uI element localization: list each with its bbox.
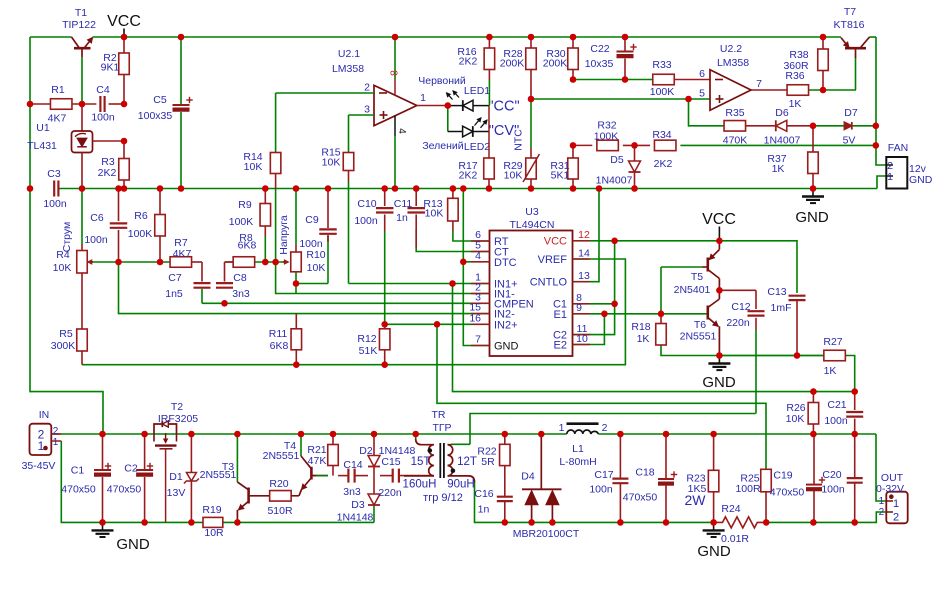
capacitor C18 — [658, 434, 677, 522]
resistor R25 — [761, 469, 772, 522]
junction (541.3,434) — [538, 431, 545, 438]
junction (504.8,522.4) — [502, 519, 509, 526]
svg-text:C22: C22 — [590, 43, 609, 55]
label C9 — [299, 214, 323, 250]
junction (875.8,125.8) — [873, 123, 880, 130]
resistor R21 — [328, 434, 339, 476]
label C21 — [824, 399, 848, 427]
label C15 — [378, 456, 402, 499]
svg-text:1K: 1K — [637, 333, 650, 345]
capacitor C12 — [748, 311, 765, 315]
wire C12 top from T5-T6 node — [719, 290, 756, 309]
svg-text:10x35: 10x35 — [585, 58, 614, 70]
label T6 — [680, 319, 717, 343]
svg-text:7: 7 — [475, 334, 481, 346]
svg-text:10: 10 — [576, 333, 588, 345]
label D3 — [337, 499, 374, 524]
label TR — [403, 409, 477, 504]
wire CMPEN compensation row — [202, 289, 490, 304]
label R33 — [650, 59, 675, 98]
svg-text:D7: D7 — [844, 107, 858, 119]
junction (813.4,522.4) — [810, 519, 817, 526]
svg-text:2K2: 2K2 — [459, 170, 478, 182]
svg-text:2K2: 2K2 — [654, 158, 673, 170]
svg-text:T6: T6 — [694, 319, 706, 331]
svg-text:DTC: DTC — [494, 257, 517, 269]
label R11 — [269, 328, 289, 352]
svg-text:10K: 10K — [425, 208, 444, 220]
junction (384.7,364.7) — [381, 361, 388, 368]
wire IN2- row from C6 — [119, 262, 490, 314]
svg-text:U3: U3 — [525, 206, 539, 218]
junction (813.4,391.6) — [810, 388, 817, 395]
svg-text:Зелений: Зелений — [422, 140, 463, 152]
svg-text:GND: GND — [116, 536, 150, 553]
label T1 — [62, 7, 96, 31]
junction (437,324.3) — [434, 321, 441, 328]
junction (634.5,145.4) — [631, 142, 638, 149]
svg-text:1: 1 — [420, 92, 426, 104]
power flag VCC — [107, 13, 141, 37]
svg-text:R11: R11 — [269, 328, 288, 340]
svg-text:C6: C6 — [90, 212, 104, 224]
svg-text:100n: 100n — [589, 484, 613, 496]
svg-text:2N5551: 2N5551 — [263, 450, 300, 462]
junction (118.5,262) — [115, 259, 122, 266]
wire R32-R34 row — [573, 144, 876, 146]
wire pin5 node down to R35 row — [689, 99, 725, 126]
svg-text:10K: 10K — [504, 170, 523, 182]
label C1 — [61, 465, 96, 496]
label R1 — [48, 84, 67, 125]
svg-text:U1: U1 — [36, 122, 50, 134]
junction (713.6,522.4) — [710, 519, 717, 526]
capacitor C21 — [846, 392, 863, 434]
svg-text:NTC: NTC — [513, 129, 525, 151]
svg-text:C12: C12 — [731, 301, 750, 313]
label R30 — [543, 48, 568, 70]
LED LED2 — [448, 106, 489, 137]
capacitor C5 — [173, 37, 193, 189]
svg-text:C17: C17 — [594, 469, 613, 481]
capacitor C14 — [348, 469, 354, 483]
power flag VCC at T5 — [702, 211, 736, 241]
svg-text:C2: C2 — [124, 463, 138, 475]
svg-text:C20: C20 — [822, 469, 841, 481]
svg-text:R9: R9 — [238, 199, 252, 211]
junction (634.5,188.5) — [631, 185, 638, 192]
svg-text:100K: 100K — [594, 131, 619, 143]
svg-text:2N5551: 2N5551 — [680, 331, 717, 343]
U3 left pin stubs — [471, 241, 490, 346]
wire R10 bottom to IN1- row — [295, 272, 297, 294]
label R26 — [786, 402, 806, 425]
resistor R32 — [597, 140, 619, 151]
junction (614.6,303.8) — [611, 301, 618, 308]
capacitor C4 — [100, 96, 104, 112]
svg-text:D1: D1 — [169, 471, 183, 483]
svg-text:D6: D6 — [775, 107, 789, 119]
svg-text:8: 8 — [388, 70, 399, 76]
resistor R31 — [568, 145, 579, 188]
wire DTC-GND chain vertical — [463, 189, 489, 346]
svg-text:U2.2: U2.2 — [720, 43, 742, 55]
svg-text:1mF: 1mF — [771, 302, 792, 314]
junction (489.4,37) — [486, 34, 493, 41]
junction (573,79.5) — [570, 76, 577, 83]
label C14 — [343, 459, 363, 498]
junction (614.6,240.8) — [611, 238, 618, 245]
transistor T3 — [237, 434, 270, 522]
label C7 — [165, 272, 183, 300]
wire output V+ to OUT pin1 — [876, 434, 886, 501]
label C13 — [767, 286, 791, 314]
svg-text:R20: R20 — [269, 478, 288, 490]
wire transformer secondary top — [451, 443, 470, 445]
svg-text:LM358: LM358 — [717, 57, 749, 69]
svg-text:C15: C15 — [381, 456, 400, 468]
svg-text:D3: D3 — [351, 499, 365, 511]
junction (328,188.5) — [325, 185, 332, 192]
connector FAN — [886, 157, 907, 189]
resistor R20 — [270, 491, 292, 502]
label R3 — [98, 156, 117, 179]
svg-text:2: 2 — [602, 422, 608, 434]
wire R1-C4 node row — [30, 103, 124, 105]
svg-text:L-80mH: L-80mH — [559, 456, 596, 468]
resistor R34 — [654, 140, 676, 151]
svg-text:360R: 360R — [783, 60, 809, 72]
svg-text:IN2+: IN2+ — [494, 319, 518, 331]
label U1 — [27, 122, 57, 152]
capacitor C20 — [847, 434, 863, 522]
junction (124,141) — [121, 138, 128, 145]
label T2 — [158, 401, 198, 425]
wire wiper row left (Strum) — [89, 261, 170, 263]
label CV — [489, 123, 519, 139]
resistor R3 — [119, 141, 130, 189]
svg-text:100n: 100n — [43, 198, 67, 210]
svg-text:100K: 100K — [650, 86, 675, 98]
junction (620.4,434) — [617, 431, 624, 438]
label LED2 — [422, 140, 490, 153]
svg-text:тгр 9/12: тгр 9/12 — [423, 492, 463, 504]
resistor R7 — [170, 257, 192, 268]
junction (489,188.5) — [486, 185, 493, 192]
label NTC vertical — [513, 129, 525, 151]
svg-text:R4: R4 — [56, 249, 70, 261]
wire bottom power bus — [51, 433, 876, 435]
wire VREF divider row — [82, 259, 625, 365]
svg-text:470x50: 470x50 — [61, 484, 96, 496]
svg-text:100n: 100n — [354, 215, 378, 227]
junction (30,104) — [27, 101, 34, 108]
svg-text:13V: 13V — [167, 487, 186, 499]
svg-text:3n3: 3n3 — [343, 486, 361, 498]
junction (395,188.5) — [392, 185, 399, 192]
svg-text:6: 6 — [699, 68, 705, 80]
svg-text:R34: R34 — [652, 129, 671, 141]
label C17 — [589, 469, 613, 496]
label D4 — [513, 471, 580, 541]
resistor R14 — [270, 93, 281, 262]
svg-text:C3: C3 — [47, 168, 61, 180]
wire wiper row right — [225, 261, 287, 263]
wire T7 emitter to FAN pin2 — [876, 37, 886, 165]
resistor R1 — [50, 99, 71, 110]
svg-text:C5: C5 — [153, 94, 167, 106]
svg-text:5V: 5V — [843, 135, 856, 147]
capacitor C16 — [497, 497, 513, 523]
label T7 — [834, 6, 865, 31]
junction (181,188.5) — [178, 185, 185, 192]
resistor R37 — [808, 126, 819, 189]
svg-text:2W: 2W — [685, 492, 707, 508]
junction (265.3,188.5) — [262, 185, 269, 192]
capacitor C7 — [194, 283, 211, 288]
label R38 — [783, 49, 809, 72]
resistor R30 — [568, 37, 579, 80]
svg-text:4K7: 4K7 — [48, 113, 67, 125]
label C11 — [394, 198, 413, 224]
label R23 — [685, 473, 707, 509]
junction (823,37) — [820, 34, 827, 41]
label R9 — [229, 199, 254, 228]
label R27 — [823, 336, 842, 377]
resistor R9 — [260, 189, 271, 263]
svg-text:9: 9 — [576, 302, 582, 314]
svg-text:T5: T5 — [691, 271, 703, 283]
label LED1 — [418, 75, 490, 97]
label C12 — [726, 301, 750, 329]
diode D2 — [368, 434, 380, 476]
IC U1 TL431 — [72, 104, 125, 189]
svg-text:C19: C19 — [773, 470, 792, 482]
label R31 — [550, 160, 569, 182]
label U2.2 — [699, 43, 762, 100]
svg-text:3: 3 — [364, 104, 370, 116]
svg-text:VCC: VCC — [107, 13, 141, 30]
label R19 — [202, 504, 224, 539]
svg-text:R24: R24 — [721, 503, 740, 515]
label R4 — [53, 249, 72, 274]
svg-text:R33: R33 — [652, 59, 671, 71]
U3 right pin stubs — [573, 241, 591, 345]
label C2 — [107, 463, 142, 496]
capacitor C9 — [319, 189, 337, 243]
label R34 — [652, 129, 672, 170]
svg-text:1: 1 — [38, 439, 45, 453]
label R2 — [101, 52, 120, 74]
junction (160,262) — [157, 259, 164, 266]
svg-text:1: 1 — [559, 422, 565, 434]
svg-text:220n: 220n — [378, 487, 402, 499]
junction (620.4,522.4) — [617, 519, 624, 526]
svg-text:90uH: 90uH — [447, 479, 475, 491]
svg-text:C4: C4 — [96, 84, 110, 96]
junction (275.6,262) — [272, 259, 279, 266]
shunt resistor R24 — [714, 517, 767, 528]
wire C8 to R8 — [225, 262, 234, 282]
label C6 — [84, 212, 108, 246]
capacitor C8 — [216, 283, 233, 288]
wire GND bus — [59, 188, 877, 190]
junction (416.2,188.5) — [413, 185, 420, 192]
wire IN2+ node down to R25 row — [437, 324, 766, 469]
svg-text:E1: E1 — [554, 309, 567, 321]
wire top VCC rail — [30, 36, 876, 38]
svg-text:R6: R6 — [134, 210, 148, 222]
label R12 — [357, 333, 377, 357]
svg-text:220n: 220n — [726, 317, 750, 329]
junction (124,188.5) — [121, 185, 128, 192]
svg-text:35-45V: 35-45V — [22, 460, 56, 472]
transistor T1 — [72, 37, 93, 104]
junction (102.5,434) — [99, 431, 106, 438]
op-amp U2.1 — [276, 37, 448, 189]
svg-text:100K: 100K — [229, 216, 254, 228]
wire GND bus to FAN pin1 — [877, 176, 886, 189]
svg-text:1: 1 — [893, 498, 899, 510]
junction (854.7,434) — [851, 431, 858, 438]
junction (118.5,188.5) — [115, 185, 122, 192]
svg-text:C9: C9 — [305, 214, 319, 226]
label R5 — [51, 328, 76, 352]
junction (573,188.5) — [570, 185, 577, 192]
svg-text:470x50: 470x50 — [107, 484, 142, 496]
junction (237.4,522.4) — [234, 519, 241, 526]
junction (823,90) — [820, 87, 827, 94]
label R6 — [128, 210, 153, 240]
label R25 — [735, 473, 761, 496]
svg-text:TL494CN: TL494CN — [510, 219, 555, 231]
svg-text:1n: 1n — [396, 212, 408, 224]
wire C1-C2 collectors to VCC — [573, 241, 615, 335]
svg-text:LED2: LED2 — [464, 141, 490, 153]
svg-text:2: 2 — [879, 507, 885, 518]
wire left ground rail bottom — [61, 441, 374, 522]
capacitor C22 — [617, 37, 637, 80]
resistor R35 — [724, 121, 746, 132]
junction (463.3,261.8) — [460, 259, 467, 266]
transformer TR secondary — [448, 445, 475, 482]
junction (296,283.5) — [293, 280, 300, 287]
svg-text:10K: 10K — [53, 262, 72, 274]
wire C9 bottom corner — [327, 236, 329, 284]
svg-text:LM358: LM358 — [332, 63, 364, 75]
junction (384.7,188.5) — [381, 185, 388, 192]
svg-text:D4: D4 — [521, 471, 535, 483]
dual diode D4 MBR20100CT — [522, 434, 562, 522]
label D6 — [764, 107, 801, 147]
svg-text:2: 2 — [53, 426, 59, 437]
junction (713.6,434) — [710, 431, 717, 438]
label R24 — [721, 503, 749, 545]
svg-text:510R: 510R — [267, 505, 293, 517]
U3 pin numbers left — [469, 229, 481, 346]
label C4 — [91, 84, 115, 124]
svg-text:7: 7 — [756, 78, 762, 90]
resistor R13 — [448, 189, 459, 232]
svg-text:IN: IN — [39, 409, 50, 421]
svg-text:10R: 10R — [204, 527, 224, 539]
junction (224.5,303.3) — [221, 300, 228, 307]
wire R7 to C7 — [192, 262, 202, 282]
junction (719.4,240.8) — [716, 238, 723, 245]
junction (813,188.5) — [810, 185, 817, 192]
resistor R2 — [119, 37, 130, 104]
svg-text:C14: C14 — [343, 459, 362, 471]
label R21 — [307, 444, 326, 467]
label R32 — [594, 120, 619, 143]
label C10 — [354, 198, 378, 227]
capacitor C1 — [94, 434, 111, 522]
svg-text:ТГР: ТГР — [432, 422, 451, 434]
svg-text:T7: T7 — [844, 6, 856, 18]
junction (447.8,105.6) — [445, 102, 452, 109]
svg-text:GND: GND — [702, 374, 736, 391]
svg-text:1n5: 1n5 — [165, 288, 183, 300]
wire output bottom rail — [475, 482, 887, 522]
svg-text:C11: C11 — [394, 198, 413, 210]
label R14 — [243, 151, 262, 173]
wire T4-C14-C15 node row — [311, 475, 434, 477]
svg-text:1n: 1n — [478, 504, 490, 516]
svg-text:TR: TR — [432, 409, 446, 421]
svg-text:GND: GND — [795, 209, 829, 226]
resistor R38 — [818, 37, 829, 90]
svg-text:47K: 47K — [308, 455, 327, 467]
svg-text:FAN: FAN — [888, 142, 908, 154]
junction (265.3,262) — [262, 259, 269, 266]
svg-text:C8: C8 — [233, 272, 247, 284]
wire RT to R13 — [453, 231, 490, 241]
resistor R12 — [379, 324, 390, 364]
resistor R22 — [500, 434, 511, 496]
svg-text:100n: 100n — [91, 112, 115, 124]
label R16 — [457, 46, 477, 68]
svg-text:MBR20100CT: MBR20100CT — [513, 528, 580, 540]
svg-text:C1: C1 — [71, 465, 85, 477]
wire VCC pin12 row — [573, 241, 798, 293]
junction (384.7,324.3) — [381, 321, 388, 328]
svg-text:C21: C21 — [827, 399, 846, 411]
label R17 — [458, 160, 477, 182]
junction (144.6,434) — [141, 431, 148, 438]
svg-text:C10: C10 — [357, 198, 376, 210]
label R35 — [723, 107, 748, 147]
label C5 — [138, 94, 173, 122]
ground symbol under T6 — [702, 356, 736, 392]
svg-text:R27: R27 — [823, 336, 842, 348]
svg-text:Струм: Струм — [61, 222, 73, 252]
op-amp U2.2 — [710, 70, 751, 111]
thermistor R29 NTC — [523, 99, 540, 189]
svg-text:3n3: 3n3 — [232, 288, 250, 300]
label R29 — [503, 160, 522, 182]
resistor R5 — [77, 329, 88, 365]
svg-text:10K: 10K — [307, 262, 326, 274]
svg-text:0-32V: 0-32V — [876, 483, 904, 495]
junction (395,37) — [392, 34, 399, 41]
resistor R33 — [653, 74, 675, 85]
svg-text:5R: 5R — [481, 456, 495, 468]
svg-text:R19: R19 — [202, 504, 221, 516]
resistor R19 — [203, 517, 223, 527]
wire IN1+ row — [296, 283, 490, 285]
wire CT to C11 — [416, 229, 489, 252]
wire IN2+ / R12 row — [385, 323, 490, 325]
